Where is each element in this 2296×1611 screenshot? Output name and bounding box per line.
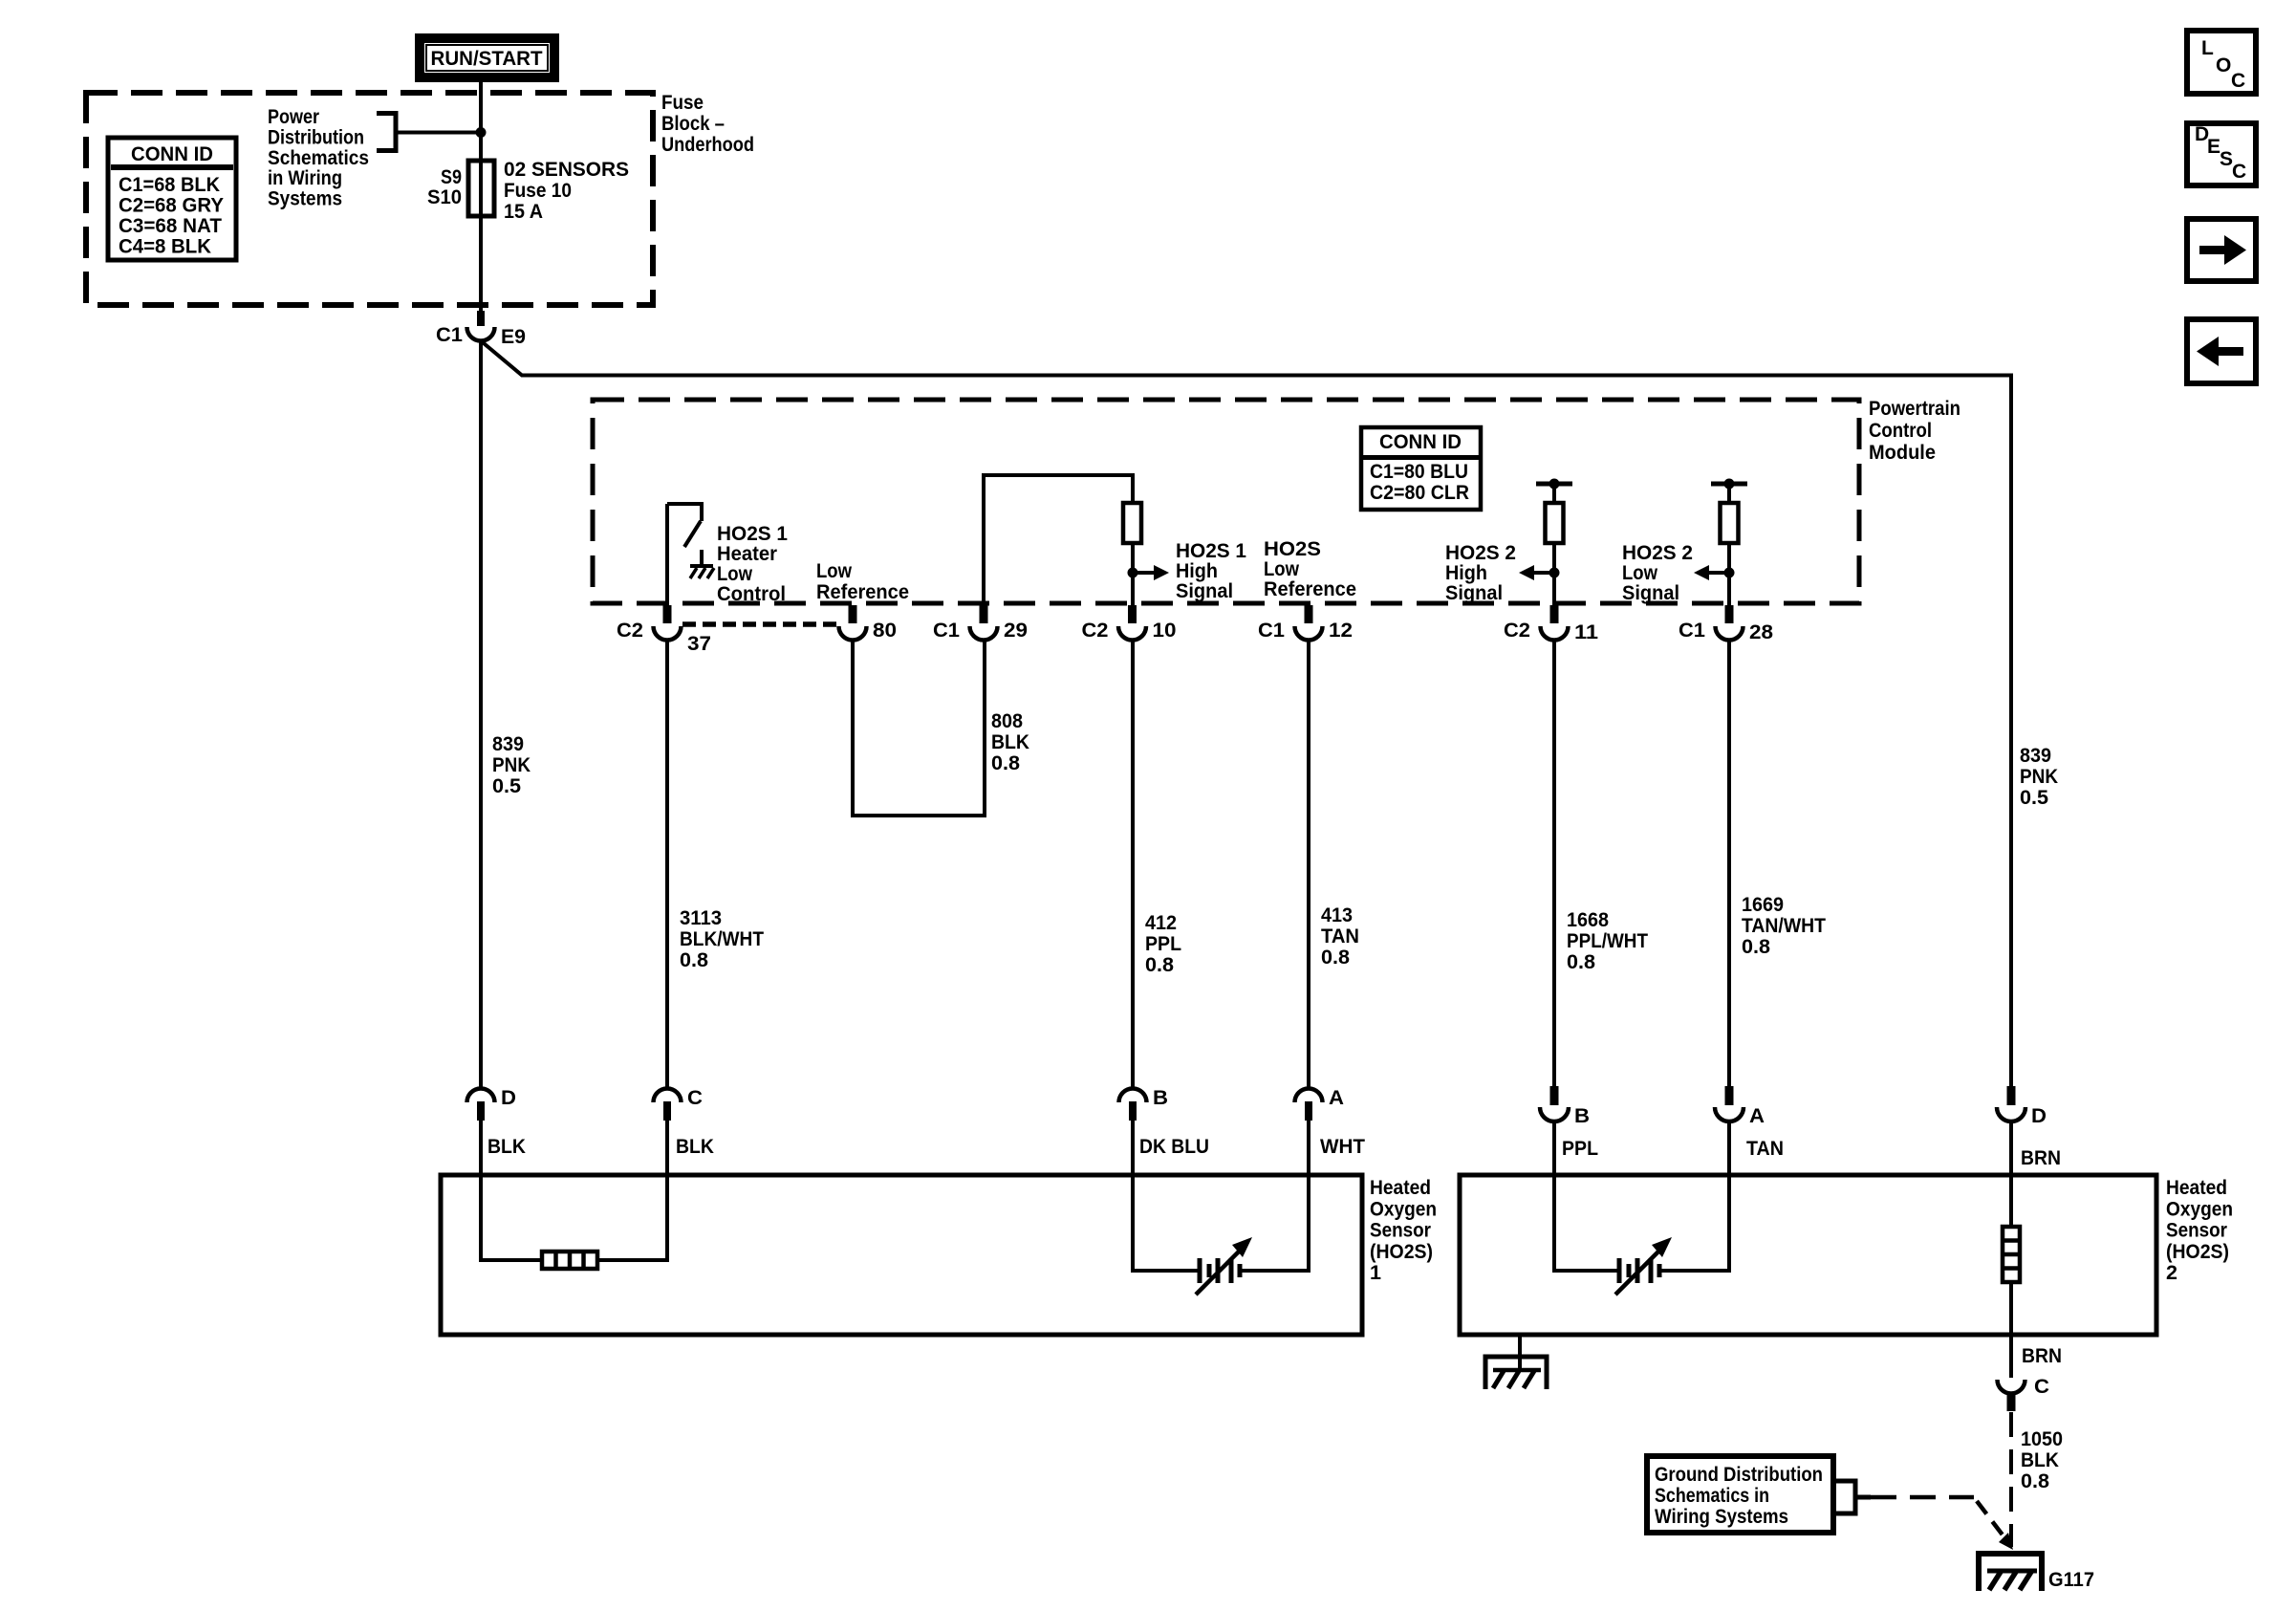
svg-text:1668: 1668 xyxy=(1567,909,1609,931)
svg-text:(HO2S): (HO2S) xyxy=(1370,1241,1433,1263)
svg-text:0.8: 0.8 xyxy=(1567,951,1595,973)
icon DESC box xyxy=(2187,123,2256,185)
HO2S 1 heater low control driver switch xyxy=(665,504,669,605)
svg-text:TAN: TAN xyxy=(1321,925,1359,947)
svg-text:C2: C2 xyxy=(617,620,643,642)
Powertrain Control Module dashed outline xyxy=(593,400,1859,603)
Heated Oxygen Sensor HO2S 2 box xyxy=(1460,1175,2156,1335)
svg-text:BRN: BRN xyxy=(2021,1147,2061,1169)
wire 808 BLK 0.8 loop xyxy=(853,639,985,816)
svg-text:0.8: 0.8 xyxy=(991,752,1020,774)
svg-text:1: 1 xyxy=(1370,1262,1381,1284)
svg-text:Module: Module xyxy=(1869,442,1936,464)
svg-text:HO2S: HO2S xyxy=(1264,538,1321,560)
svg-text:Power: Power xyxy=(268,106,319,128)
svg-text:PNK: PNK xyxy=(492,754,531,776)
svg-text:E9: E9 xyxy=(501,326,526,348)
svg-text:Control: Control xyxy=(717,583,786,605)
svg-text:Low: Low xyxy=(1264,558,1300,580)
svg-text:Low: Low xyxy=(816,560,853,582)
svg-text:Heater: Heater xyxy=(717,543,777,565)
svg-text:B: B xyxy=(1153,1087,1168,1109)
svg-text:0.8: 0.8 xyxy=(1145,954,1174,976)
svg-text:Distribution: Distribution xyxy=(268,126,364,148)
svg-text:Ground Distribution: Ground Distribution xyxy=(1655,1464,1823,1486)
svg-text:Signal: Signal xyxy=(1176,580,1233,602)
svg-text:C: C xyxy=(2231,70,2245,92)
svg-text:413: 413 xyxy=(1321,904,1353,926)
svg-text:CONN ID: CONN ID xyxy=(1379,431,1462,453)
svg-text:808: 808 xyxy=(991,710,1023,732)
svg-text:C: C xyxy=(2232,161,2246,183)
svg-text:DK BLU: DK BLU xyxy=(1139,1136,1209,1158)
svg-text:3113: 3113 xyxy=(680,907,722,929)
svg-text:C2: C2 xyxy=(1504,620,1530,642)
svg-text:HO2S 2: HO2S 2 xyxy=(1445,542,1516,564)
internal resistor above pin 10 xyxy=(1123,503,1141,543)
svg-text:11: 11 xyxy=(1574,621,1598,643)
CONN ID table, fuse block connectors xyxy=(108,138,236,260)
wire 413 TAN 0.8 xyxy=(1307,641,1310,1090)
svg-text:Fuse 10: Fuse 10 xyxy=(504,180,572,202)
svg-text:1669: 1669 xyxy=(1742,894,1784,916)
PCM pin 80 connector xyxy=(849,605,857,623)
connector terminal B HO2S 2 xyxy=(1550,1086,1559,1105)
svg-text:Heated: Heated xyxy=(1370,1177,1431,1199)
Heated Oxygen Sensor HO2S 1 box xyxy=(441,1175,1362,1335)
svg-text:Reference: Reference xyxy=(1264,578,1356,600)
svg-text:PPL: PPL xyxy=(1562,1138,1598,1160)
dashed link to ground xyxy=(1871,1495,1974,1500)
svg-text:S10: S10 xyxy=(427,186,462,208)
svg-text:BLK: BLK xyxy=(487,1136,526,1158)
svg-text:Oxygen: Oxygen xyxy=(2166,1198,2233,1220)
svg-text:B: B xyxy=(1574,1105,1590,1127)
svg-text:2: 2 xyxy=(2166,1262,2177,1284)
svg-text:Systems: Systems xyxy=(268,188,342,210)
wire 412 PPL 0.8 xyxy=(1131,641,1135,1090)
wire bracket junction xyxy=(396,131,481,135)
wire BRN below HO2S 2 xyxy=(2009,1333,2013,1378)
svg-text:Low: Low xyxy=(717,563,753,585)
wire 1669 TAN/WHT 0.8 xyxy=(1727,641,1731,1087)
svg-text:C: C xyxy=(2034,1376,2049,1398)
sensing element HO2S 2 xyxy=(1554,1176,1619,1271)
icon LOC box xyxy=(2187,31,2256,94)
wire 1668 PPL/WHT 0.8 xyxy=(1552,641,1556,1087)
svg-text:Block –: Block – xyxy=(661,113,725,135)
fuse block underhood dashed outline xyxy=(86,93,653,305)
bracket from note to feed wire xyxy=(377,114,396,151)
sensing element HO2S 1 xyxy=(1133,1176,1200,1271)
wire 3113 BLK/WHT 0.8 xyxy=(665,641,669,1090)
svg-text:PNK: PNK xyxy=(2020,766,2058,788)
icon forward arrow box xyxy=(2187,219,2256,281)
svg-text:Underhood: Underhood xyxy=(661,134,754,156)
svg-text:Reference: Reference xyxy=(816,581,909,603)
svg-text:D: D xyxy=(2031,1105,2047,1127)
arrow HO2S 1 High Signal xyxy=(1137,571,1154,575)
svg-text:0.8: 0.8 xyxy=(2021,1470,2049,1492)
connector C1 / E9 xyxy=(477,311,485,326)
arrow HO2S 2 Low Signal xyxy=(1709,571,1724,575)
icon back arrow box xyxy=(2187,319,2256,383)
svg-text:Sensor: Sensor xyxy=(1370,1220,1431,1242)
svg-text:Fuse: Fuse xyxy=(661,92,704,114)
svg-text:PPL: PPL xyxy=(1145,933,1181,955)
PCM internal source above pin 11 xyxy=(1536,482,1572,487)
svg-text:C1=68 BLK: C1=68 BLK xyxy=(119,174,220,196)
PCM pin 37 connector xyxy=(663,605,672,623)
svg-text:HO2S 1: HO2S 1 xyxy=(717,523,788,545)
PCM pin 12 connector xyxy=(1305,605,1313,623)
wire RUN/START to fuse xyxy=(479,80,483,161)
svg-text:12: 12 xyxy=(1329,620,1353,642)
svg-text:Schematics in: Schematics in xyxy=(1655,1485,1769,1507)
svg-text:High: High xyxy=(1445,562,1487,584)
svg-text:0.8: 0.8 xyxy=(1742,936,1770,958)
svg-text:C2=80 CLR: C2=80 CLR xyxy=(1370,482,1469,504)
fuse 02 SENSORS Fuse 10 15 A xyxy=(479,161,483,216)
junction node pin 28 signal tap xyxy=(1724,568,1735,578)
svg-text:C: C xyxy=(687,1087,703,1109)
PCM internal dashed link pin 37 to pin 80 xyxy=(682,621,838,627)
svg-text:Oxygen: Oxygen xyxy=(1370,1198,1437,1220)
svg-text:BRN: BRN xyxy=(2022,1345,2062,1367)
svg-text:Heated: Heated xyxy=(2166,1177,2227,1199)
svg-text:0.8: 0.8 xyxy=(1321,947,1350,969)
svg-text:0.5: 0.5 xyxy=(2020,787,2048,809)
svg-text:PPL/WHT: PPL/WHT xyxy=(1567,930,1648,952)
PCM pin 29 connector xyxy=(980,605,988,623)
internal resistor above pin 11 xyxy=(1546,503,1564,543)
svg-text:Wiring Systems: Wiring Systems xyxy=(1655,1506,1788,1528)
svg-text:D: D xyxy=(501,1087,516,1109)
svg-text:Signal: Signal xyxy=(1445,582,1503,604)
junction node pin 11 signal tap xyxy=(1549,568,1560,578)
connector terminal C xyxy=(1998,1380,2025,1394)
svg-text:1050: 1050 xyxy=(2021,1428,2063,1450)
wire E9 branch to HO2S 2 xyxy=(481,341,2011,1088)
PCM internal source above pin 28 xyxy=(1711,482,1747,487)
svg-text:37: 37 xyxy=(687,633,711,655)
note box Ground Distribution Schematics in Wiring Systems xyxy=(1647,1456,1833,1533)
svg-text:TAN/WHT: TAN/WHT xyxy=(1742,915,1826,937)
CONN ID table, PCM connectors xyxy=(1361,427,1481,510)
svg-text:10: 10 xyxy=(1153,620,1177,642)
svg-text:HO2S 2: HO2S 2 xyxy=(1622,542,1693,564)
svg-text:E: E xyxy=(2207,136,2220,158)
svg-text:412: 412 xyxy=(1145,912,1177,934)
svg-text:BLK/WHT: BLK/WHT xyxy=(680,928,764,950)
bracket from note box xyxy=(1833,1481,1855,1513)
svg-text:C2: C2 xyxy=(1082,620,1109,642)
PCM pin 11 connector xyxy=(1550,605,1559,623)
svg-text:28: 28 xyxy=(1749,621,1773,643)
chassis ground symbol xyxy=(1485,1357,1547,1389)
svg-text:839: 839 xyxy=(2020,745,2051,767)
svg-text:C1: C1 xyxy=(933,620,960,642)
ground stub HO2S 2 shell xyxy=(1518,1335,1522,1370)
svg-text:BLK: BLK xyxy=(2021,1449,2059,1471)
svg-text:CONN ID: CONN ID xyxy=(131,143,213,165)
svg-text:839: 839 xyxy=(492,733,524,755)
svg-text:BLK: BLK xyxy=(991,731,1029,753)
power feed RUN/START box xyxy=(415,33,559,82)
svg-text:BLK: BLK xyxy=(676,1136,714,1158)
svg-text:L: L xyxy=(2201,37,2214,59)
wire 839 PNK 0.5 left xyxy=(479,341,483,1090)
svg-text:02 SENSORS: 02 SENSORS xyxy=(504,159,629,181)
svg-text:RUN/START: RUN/START xyxy=(431,48,543,70)
svg-text:in Wiring: in Wiring xyxy=(268,167,342,189)
svg-text:15 A: 15 A xyxy=(504,201,543,223)
svg-text:Signal: Signal xyxy=(1622,582,1679,604)
svg-text:S9: S9 xyxy=(441,166,462,188)
svg-text:C1: C1 xyxy=(1258,620,1285,642)
svg-text:Schematics: Schematics xyxy=(268,147,369,169)
svg-text:C4=8 BLK: C4=8 BLK xyxy=(119,236,211,258)
svg-text:HO2S 1: HO2S 1 xyxy=(1176,540,1246,562)
connector terminal D HO2S 1 xyxy=(467,1089,495,1103)
arrow HO2S 2 High Signal xyxy=(1534,571,1549,575)
svg-text:0.5: 0.5 xyxy=(492,775,521,797)
svg-text:A: A xyxy=(1329,1087,1344,1109)
driver internal ground xyxy=(690,564,713,568)
junction node pin 10 signal tap xyxy=(1128,568,1138,578)
connector terminal D HO2S 2 xyxy=(2007,1086,2016,1105)
svg-text:TAN: TAN xyxy=(1746,1138,1784,1160)
connector terminal A HO2S 2 xyxy=(1725,1086,1734,1105)
PCM internal wire pin 29 to resistor xyxy=(984,475,1133,605)
svg-text:(HO2S): (HO2S) xyxy=(2166,1241,2229,1263)
svg-text:C1: C1 xyxy=(1679,620,1705,642)
svg-text:C2=68 GRY: C2=68 GRY xyxy=(119,195,224,217)
svg-text:80: 80 xyxy=(873,620,897,642)
PCM pin 10 connector xyxy=(1128,605,1137,623)
internal resistor above pin 28 xyxy=(1721,503,1739,543)
svg-text:C1: C1 xyxy=(436,324,463,346)
wire fuse to connector C1 xyxy=(479,216,483,312)
connector terminal A HO2S 1 xyxy=(1295,1089,1323,1103)
svg-text:High: High xyxy=(1176,560,1218,582)
svg-text:S: S xyxy=(2220,148,2233,170)
heater element HO2S 2 xyxy=(2009,1176,2013,1227)
svg-text:Sensor: Sensor xyxy=(2166,1220,2227,1242)
PCM pin 28 connector xyxy=(1725,605,1734,623)
svg-text:A: A xyxy=(1749,1105,1765,1127)
connector terminal B HO2S 1 xyxy=(1119,1089,1147,1103)
svg-text:C1=80 BLU: C1=80 BLU xyxy=(1370,461,1468,483)
ground G117 symbol xyxy=(1979,1554,2042,1591)
connector terminal C HO2S 1 xyxy=(654,1089,682,1103)
svg-text:C3=68 NAT: C3=68 NAT xyxy=(119,215,222,237)
svg-text:0.8: 0.8 xyxy=(680,949,708,971)
svg-text:G117: G117 xyxy=(2048,1569,2094,1591)
wire 1050 BLK 0.8 dashed xyxy=(2009,1412,2013,1547)
svg-text:O: O xyxy=(2216,54,2231,76)
svg-text:Control: Control xyxy=(1869,420,1932,442)
junction node on feed wire xyxy=(476,127,487,138)
svg-text:Powertrain: Powertrain xyxy=(1869,398,1960,420)
heater element HO2S 1 xyxy=(481,1176,542,1260)
svg-text:Low: Low xyxy=(1622,562,1658,584)
svg-text:29: 29 xyxy=(1004,620,1028,642)
svg-text:WHT: WHT xyxy=(1320,1136,1365,1158)
